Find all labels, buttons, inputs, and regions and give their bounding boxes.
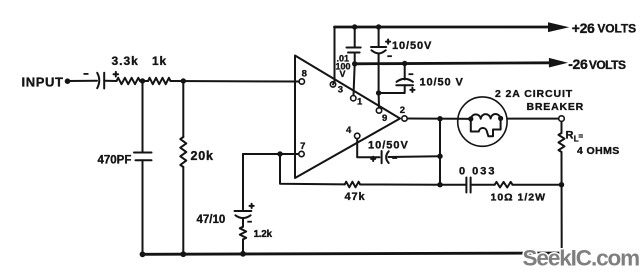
wire output pin 2 xyxy=(408,118,458,120)
plus mark pin4 cap xyxy=(371,157,375,161)
pin 3 circle xyxy=(330,82,335,87)
node B dot xyxy=(181,78,186,83)
capacitor C1 plus mark xyxy=(114,72,119,77)
resistor 47k xyxy=(345,182,360,188)
capacitor 10/50V (lower) stub from -26 rail xyxy=(404,64,406,80)
pin 7 circle xyxy=(299,151,304,156)
capacitor 10/50V (upper) curved plate xyxy=(372,50,386,53)
wire 1.2k to ground rail xyxy=(242,239,244,253)
plus mark lower 10/50V xyxy=(410,88,414,92)
minus mark upper 10/50V xyxy=(387,55,392,57)
resistor 20k xyxy=(180,137,186,167)
svg-text:9: 9 xyxy=(382,113,387,124)
capacitor 10/50V (pin4) straight plate xyxy=(381,151,383,163)
svg-text:470PF: 470PF xyxy=(98,155,132,167)
plus mark 47/10 xyxy=(250,204,254,208)
node A dot xyxy=(140,78,145,83)
pin 3 supply wire xyxy=(333,27,335,84)
wire pin 4 to bypass cap xyxy=(357,139,379,157)
svg-text:4 OHMS: 4 OHMS xyxy=(577,145,620,157)
wire node B to pin 8 xyxy=(171,80,299,83)
-26V rail xyxy=(355,63,550,64)
svg-text:1.2k: 1.2k xyxy=(254,229,273,240)
ground dot 1.2k xyxy=(240,251,246,257)
wire cap to resistor 1.2k xyxy=(242,218,244,227)
wire upper cap down across -26 rail to pin 9 node xyxy=(378,54,380,108)
wire C1 to R 3.3k xyxy=(104,80,116,82)
capacitor 0.033 right plate xyxy=(470,178,472,193)
wire lower cap to pin 9 node xyxy=(379,85,405,93)
wire output node down xyxy=(439,119,441,185)
svg-text:7: 7 xyxy=(300,141,305,152)
capacitor 10/50V (upper) straight plate xyxy=(371,46,386,48)
wire pin 7 xyxy=(243,153,298,155)
resistor RL 4 ohms xyxy=(559,133,565,152)
capacitor 10/50V (lower) curved plate xyxy=(397,79,413,82)
circuit breaker circle xyxy=(458,97,507,146)
input terminal dot xyxy=(65,78,71,84)
+26V arrow head xyxy=(548,22,569,32)
capacitor 10/50V (pin4) curved plate xyxy=(386,151,389,163)
junction dot .01 cap at +26 rail xyxy=(352,24,357,29)
breaker lower contact path xyxy=(471,118,501,136)
wire .01 cap to -26 rail and pin 1 xyxy=(354,53,355,96)
wire node A down to 470PF xyxy=(142,81,144,153)
capacitor C1 (input coupling, curved plate) xyxy=(97,73,99,88)
ground dot 470PF xyxy=(140,251,146,257)
svg-text:BREAKER: BREAKER xyxy=(527,101,585,113)
junction dot pin 9 node xyxy=(376,90,381,95)
output terminal circle xyxy=(559,116,565,122)
svg-text:V: V xyxy=(340,69,346,79)
capacitor 10/50V (upper) stub from +26 rail xyxy=(378,27,380,47)
capacitor 470PF top plate xyxy=(134,152,152,154)
op-amp U1 triangle xyxy=(295,56,400,179)
svg-text:8: 8 xyxy=(302,69,307,80)
minus mark pin4 cap xyxy=(392,157,397,159)
junction dot output node xyxy=(437,116,442,121)
capacitor 47/10 curved plate xyxy=(235,215,250,218)
resistor 10 ohm xyxy=(495,182,513,188)
pin 1 circle xyxy=(351,96,356,101)
junction dot zobel at RL xyxy=(559,182,564,187)
junction dot zobel tap xyxy=(437,182,442,187)
ground rail xyxy=(143,253,562,254)
capacitor 0.033 left plate xyxy=(465,178,467,193)
svg-text:10/50V: 10/50V xyxy=(392,40,432,52)
svg-text:4: 4 xyxy=(346,125,352,136)
junction dot pin4 cap tap xyxy=(437,154,442,159)
wire 10 ohm to RL xyxy=(513,184,562,186)
svg-text:10/50V: 10/50V xyxy=(368,139,409,151)
svg-text:+26VOLTS: +26VOLTS xyxy=(572,20,636,36)
wire into breaker xyxy=(458,118,471,120)
wire 470PF to ground rail xyxy=(142,160,144,254)
ground dot 20k xyxy=(180,251,186,257)
wire feedback node down xyxy=(280,154,345,184)
capacitor .01/100V bottom plate xyxy=(348,52,360,54)
svg-text:20k: 20k xyxy=(191,149,214,163)
minus mark lower 10/50V xyxy=(409,73,414,75)
wire pin4 cap to output vertical xyxy=(389,155,441,158)
wire RL top xyxy=(561,122,563,133)
resistor 1.2k xyxy=(240,227,246,240)
resistor 1k xyxy=(148,78,171,84)
resistor 3.3k xyxy=(117,78,141,84)
capacitor .01/100V stub from +26 rail xyxy=(354,27,356,47)
junction dot feedback node xyxy=(277,151,282,156)
svg-text:-26VOLTS: -26VOLTS xyxy=(568,56,626,72)
capacitor C1 minus mark xyxy=(84,73,89,75)
capacitor C1 straight plate xyxy=(103,73,105,89)
svg-text:10Ω 1/2W: 10Ω 1/2W xyxy=(491,192,547,204)
wire input to C1 xyxy=(68,80,98,82)
wire down to 47/10 cap xyxy=(242,154,244,210)
svg-text:2: 2 xyxy=(400,105,405,116)
wire zobel tap to cap xyxy=(440,184,466,186)
svg-text:=: = xyxy=(579,132,584,141)
svg-text:47/10: 47/10 xyxy=(197,214,226,226)
breaker coil dot right xyxy=(498,116,503,121)
pin 8 circle xyxy=(299,79,304,84)
minus mark 47/10 xyxy=(247,221,252,223)
junction dot lower 10/50V at -26 rail xyxy=(402,61,407,66)
svg-text:R: R xyxy=(566,130,574,142)
wire cap to 10 ohm xyxy=(471,184,495,186)
pin 2 output circle xyxy=(402,116,407,121)
plus mark upper 10/50V xyxy=(386,40,390,44)
wire 47k to output vertical xyxy=(360,184,440,186)
wire node B down to 20k xyxy=(182,81,184,137)
pin 4 circle xyxy=(355,133,360,138)
wire RL to ground rail xyxy=(561,152,563,253)
svg-text:0 033: 0 033 xyxy=(459,165,497,177)
-26V arrow head xyxy=(549,58,568,68)
wire breaker to RL xyxy=(507,118,558,120)
wire 20k to ground rail xyxy=(182,167,184,254)
svg-text:3: 3 xyxy=(338,84,343,95)
svg-text:INPUT: INPUT xyxy=(22,75,64,90)
junction dot .01 cap at -26 rail xyxy=(352,61,357,66)
capacitor 10/50V (lower) straight plate xyxy=(396,84,413,86)
capacitor 470PF bottom plate xyxy=(136,159,152,161)
breaker coil dot left xyxy=(468,116,473,121)
capacitor 47/10 top plate xyxy=(235,210,252,212)
pin 9 circle xyxy=(376,108,381,113)
svg-text:10/50 V: 10/50 V xyxy=(420,76,464,88)
svg-text:47k: 47k xyxy=(345,191,366,203)
svg-text:2 2A CIRCUIT: 2 2A CIRCUIT xyxy=(495,88,573,100)
+26V rail xyxy=(335,26,549,29)
svg-text:SeekIC.com: SeekIC.com xyxy=(523,246,640,271)
wire node A to R 1k xyxy=(140,80,148,82)
svg-text:1k: 1k xyxy=(152,54,167,68)
junction dot 10/50V cap at +26 rail xyxy=(376,24,381,29)
svg-text:1: 1 xyxy=(357,97,363,108)
capacitor .01/100V top plate xyxy=(347,47,361,49)
svg-text:3.3k: 3.3k xyxy=(112,54,139,68)
breaker coil scallops xyxy=(471,114,501,119)
